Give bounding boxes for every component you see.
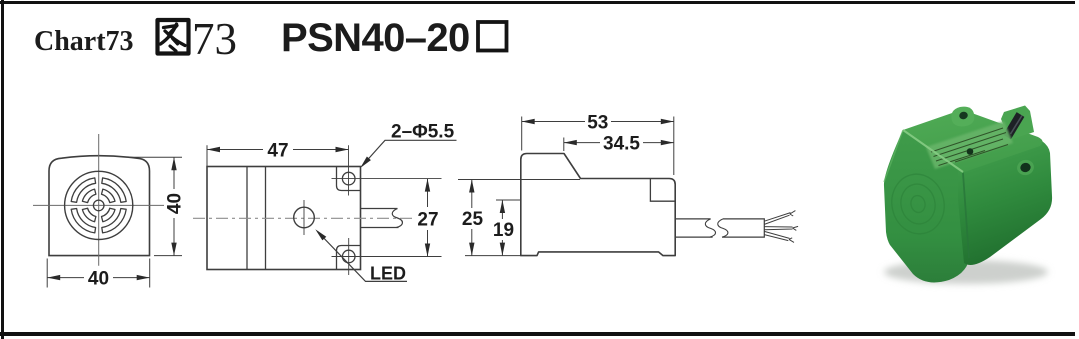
- middle view bottom mounting hole: [342, 250, 355, 263]
- dim 34.5: dimension line: [564, 142, 600, 144]
- svg-text:47: 47: [267, 141, 288, 162]
- label strip: [926, 121, 1013, 169]
- front view centerline horizontal: [33, 204, 164, 206]
- dim 34.5: extension line middle: [563, 138, 565, 152]
- svg-text:Chart73: Chart73: [34, 26, 134, 57]
- front view dim 40 bottom: dimension line: [47, 277, 84, 279]
- sensor cable black stub: [1007, 115, 1021, 138]
- front view outer circle: [65, 171, 133, 239]
- svg-text:27: 27: [417, 210, 438, 231]
- bottom border bar: [0, 332, 1075, 336]
- sensor front face circles emboss: [886, 169, 949, 239]
- dim 47: extension line left: [206, 145, 208, 166]
- middle view bottom mounting tab: [337, 246, 361, 270]
- front view dim 40 bottom: extension lines: [46, 259, 48, 288]
- middle view cable stub break curve: [392, 209, 402, 228]
- front view ring band outer: [71, 178, 126, 233]
- svg-text:PSN40–20: PSN40–20: [281, 16, 470, 60]
- sensor top face: [903, 111, 1043, 172]
- svg-text:19: 19: [493, 220, 514, 241]
- right view cable segment 2: [722, 219, 764, 237]
- middle view top hole crosshair vertical / 47 right extension: [348, 145, 350, 195]
- right view cable break curve 1: [705, 219, 715, 237]
- dim 53: dimension line: [522, 121, 585, 123]
- gland corner block: [1001, 106, 1034, 141]
- wire middle: [764, 226, 798, 230]
- right view cable segment 1: [675, 218, 710, 220]
- svg-text:53: 53: [587, 113, 608, 134]
- svg-text:25: 25: [462, 209, 484, 230]
- right view body outline: [521, 154, 675, 256]
- sensor right face: [958, 141, 1052, 265]
- label 2-PHI5.5 underline and leader: [362, 140, 457, 166]
- svg-text:2–Φ5.5: 2–Φ5.5: [391, 122, 455, 143]
- middle view horizontal dash-dot centerline: [193, 217, 412, 219]
- middle view face cap line 2: [265, 167, 267, 270]
- svg-text:73: 73: [192, 14, 237, 64]
- middle view bottom hole crosshair vertical: [348, 238, 350, 275]
- sensor left face (sensing face): [884, 130, 970, 282]
- label LED leader arrowhead: [315, 229, 326, 240]
- svg-text:40: 40: [88, 269, 109, 290]
- dim 19: dimension line: [501, 200, 503, 219]
- top back boss with mounting hole: [951, 107, 974, 127]
- front view center circle: [93, 200, 104, 211]
- front view dim 40 right: dimension line: [173, 157, 175, 189]
- middle view top mounting tab: [337, 167, 361, 191]
- label LED underline and leader: [318, 232, 408, 282]
- right view cable boot rectangle: [650, 179, 675, 202]
- front view ring band inner: [82, 189, 115, 222]
- svg-text:34.5: 34.5: [603, 134, 640, 155]
- middle view LED hole circle: [294, 207, 315, 228]
- front view centerline vertical: [98, 134, 100, 266]
- dim 53: extension lines: [521, 117, 523, 151]
- dim 25: dimension line: [471, 180, 473, 209]
- product photo of green sensor: [884, 106, 1052, 285]
- front view body outline: [49, 156, 150, 256]
- sensor edge highlight: [903, 130, 963, 172]
- dim 19: extension line top: [496, 199, 521, 201]
- front view dim 40 right: extension lines: [130, 156, 182, 158]
- middle view cable stub bottom line: [361, 227, 399, 229]
- sensor LED dot: [967, 148, 974, 155]
- wire top: [764, 211, 795, 225]
- svg-text:40: 40: [165, 193, 186, 214]
- dim 27: extension lines from holes: [332, 178, 442, 180]
- dim 25: extension lines: [458, 179, 580, 181]
- dim 47: dimension line: [207, 149, 263, 151]
- title CJK glyph 图 (drawn): [158, 20, 189, 54]
- photo shadow: [884, 260, 1048, 284]
- left border line: [1, 0, 4, 339]
- middle view face cap line 1: [246, 167, 248, 270]
- dim 27: dimension line: [427, 179, 429, 207]
- svg-text:LED: LED: [370, 264, 406, 284]
- sensor mounting hole front-right: [1015, 158, 1035, 177]
- middle view top mounting hole: [342, 172, 355, 185]
- middle view cable stub top line: [361, 208, 398, 210]
- wire bottom: [764, 231, 794, 242]
- label 2-PHI5.5 leader arrowhead: [360, 157, 371, 169]
- right view cable break curve 2: [718, 219, 728, 237]
- middle view LED hole vertical crosshair: [303, 200, 305, 235]
- top border bar: [0, 1, 1075, 4]
- middle view body rectangle: [207, 167, 361, 270]
- title suffix square: [478, 22, 507, 51]
